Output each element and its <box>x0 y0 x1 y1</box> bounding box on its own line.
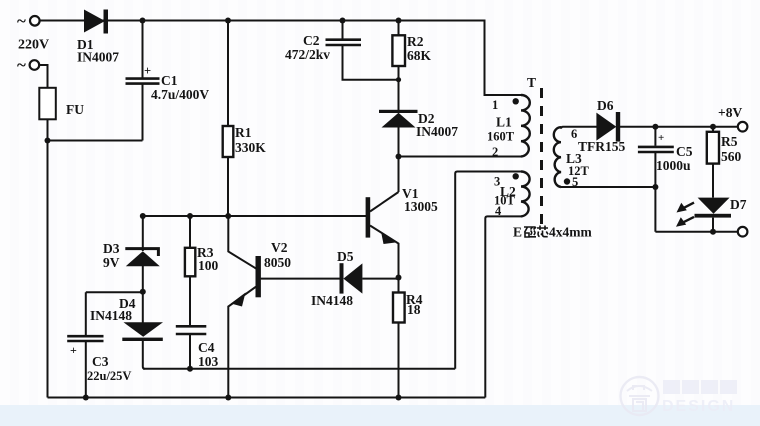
svg-text:E: E <box>513 225 522 240</box>
svg-text:330K: 330K <box>235 140 266 155</box>
svg-text:C3: C3 <box>92 354 109 369</box>
svg-text:68K: 68K <box>407 48 432 63</box>
svg-text:4x4mm: 4x4mm <box>549 225 592 240</box>
svg-text:22u/25V: 22u/25V <box>87 369 131 383</box>
svg-text:C4: C4 <box>198 340 215 355</box>
svg-text:+: + <box>658 132 664 144</box>
svg-text:V2: V2 <box>271 240 288 255</box>
svg-text:D3: D3 <box>103 241 120 256</box>
svg-text:FU: FU <box>66 102 84 117</box>
svg-text:18: 18 <box>407 302 421 317</box>
svg-text:IN4007: IN4007 <box>416 124 458 139</box>
svg-text:2: 2 <box>492 145 498 159</box>
svg-text:DESIGN: DESIGN <box>662 398 735 415</box>
svg-text:160T: 160T <box>487 130 515 144</box>
svg-text:472/2kv: 472/2kv <box>285 47 330 62</box>
svg-text:T: T <box>527 75 536 90</box>
svg-text:+: + <box>144 64 151 78</box>
svg-text:1000u: 1000u <box>656 158 691 173</box>
svg-text:1: 1 <box>492 98 498 112</box>
svg-text:220V: 220V <box>18 38 49 53</box>
svg-text:+: + <box>70 343 77 357</box>
svg-text:103: 103 <box>198 354 219 369</box>
svg-text:R5: R5 <box>721 134 738 149</box>
svg-text:560: 560 <box>721 149 742 164</box>
svg-text:D7: D7 <box>730 197 747 212</box>
svg-text:~: ~ <box>17 56 26 75</box>
svg-text:IN4148: IN4148 <box>90 308 132 323</box>
svg-text:4: 4 <box>495 204 502 218</box>
svg-text:+8V: +8V <box>718 105 742 120</box>
svg-text:R1: R1 <box>235 125 252 140</box>
svg-text:IN4148: IN4148 <box>311 293 353 308</box>
svg-text:R2: R2 <box>407 34 424 49</box>
svg-text:~: ~ <box>17 12 26 31</box>
svg-text:4.7u/400V: 4.7u/400V <box>151 87 209 102</box>
svg-text:TFR155: TFR155 <box>578 139 626 154</box>
svg-text:D6: D6 <box>597 98 614 113</box>
svg-text:9V: 9V <box>103 255 120 270</box>
svg-text:C2: C2 <box>303 33 320 48</box>
svg-text:100: 100 <box>198 258 219 273</box>
svg-text:C1: C1 <box>161 73 178 88</box>
svg-text:IN4007: IN4007 <box>77 50 119 65</box>
svg-text:D5: D5 <box>337 249 354 264</box>
svg-text:C5: C5 <box>676 144 693 159</box>
svg-text:13005: 13005 <box>404 199 438 214</box>
svg-text:6: 6 <box>571 127 577 141</box>
svg-text:5: 5 <box>572 175 578 189</box>
svg-text:8050: 8050 <box>264 255 291 270</box>
svg-text:L1: L1 <box>496 115 512 130</box>
